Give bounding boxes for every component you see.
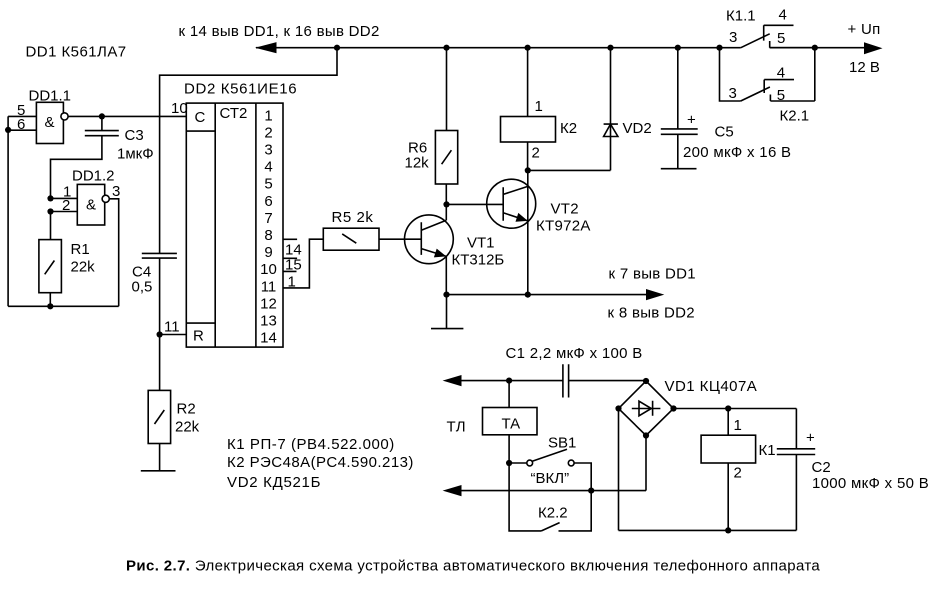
svg-text:13: 13: [260, 313, 277, 330]
svg-text:5: 5: [777, 87, 785, 104]
node phone line upper arrow: [443, 375, 462, 386]
node phone line lower arrow: [443, 485, 462, 496]
op-amp gate DD1.1: [29, 88, 72, 144]
svg-text:&: &: [86, 197, 96, 214]
svg-text:1000 мкФ х 50 В: 1000 мкФ х 50 В: [812, 475, 929, 492]
svg-text:к 14 выв DD1, к 16 выв DD2: к 14 выв DD1, к 16 выв DD2: [179, 23, 380, 40]
node VT1 collector junction: [443, 201, 449, 207]
node R1 bottom junction: [5, 127, 53, 310]
wire VT1 collector junction to VT2 base: [446, 203, 503, 205]
capacitor C3: [51, 116, 154, 198]
capacitor C1: [506, 345, 643, 398]
svg-text:“ВКЛ”: “ВКЛ”: [531, 470, 570, 487]
svg-text:R1: R1: [71, 241, 90, 258]
svg-text:3: 3: [729, 29, 737, 46]
label relay types list: [227, 436, 414, 491]
svg-text:к 8 выв DD2: к 8 выв DD2: [608, 305, 695, 322]
switch contact K1.1: [726, 7, 815, 48]
diode bridge VD1 KC407A: [619, 378, 758, 436]
switch contact K2.1: [720, 48, 815, 125]
svg-text:VD2 КД521Б: VD2 КД521Б: [227, 474, 321, 491]
IC DD2 K561IE16 counter: [184, 81, 297, 348]
svg-text:R5 2k: R5 2k: [332, 209, 374, 226]
node K1 top junction: [725, 405, 731, 411]
svg-text:3: 3: [729, 85, 737, 102]
svg-text:22k: 22k: [71, 259, 96, 276]
svg-text:R2: R2: [177, 401, 196, 418]
svg-text:&: &: [45, 114, 55, 131]
svg-text:22k: 22k: [175, 419, 200, 436]
transistor VT1 KT312B: [405, 215, 505, 269]
wire DD2 pin 11 R input: [160, 319, 187, 336]
node arrow to pin 7 DD1 / pin 8 DD2: [608, 266, 696, 322]
wire pin 2 DD1.2: [51, 197, 78, 214]
svg-text:VD2: VD2: [623, 120, 652, 137]
svg-text:К2.2: К2.2: [538, 505, 568, 522]
wire R5 to VT1 base: [379, 238, 422, 240]
resistor R2 22k: [148, 390, 199, 443]
wire K2 pin 2 to VT2 collector: [528, 142, 540, 170]
svg-text:1: 1: [264, 107, 272, 124]
node arrow to pins 14 DD1 / 16 DD2: [179, 23, 380, 53]
transistor VT2 KT972A: [487, 179, 591, 234]
svg-text:1: 1: [535, 98, 543, 115]
svg-text:VD1 КЦ407А: VD1 КЦ407А: [665, 378, 758, 395]
svg-text:К2 РЭС48А(РС4.590.213): К2 РЭС48А(РС4.590.213): [227, 454, 414, 471]
svg-text:14: 14: [260, 330, 277, 347]
svg-text:ТЛ: ТЛ: [447, 419, 466, 436]
svg-text:к 7 выв DD1: к 7 выв DD1: [609, 266, 696, 283]
svg-text:12 В: 12 В: [849, 59, 880, 76]
node SB1 right junction: [588, 488, 594, 494]
wire DD1.2 output pin 3: [109, 183, 120, 306]
svg-text:DD2 К561ИЕ16: DD2 К561ИЕ16: [184, 81, 297, 98]
node DD1.1 output junction: [99, 113, 105, 119]
svg-text:5: 5: [264, 176, 272, 193]
wire VT1 collector to R6: [445, 184, 447, 220]
node R input junction: [157, 331, 163, 337]
svg-text:К2.1: К2.1: [780, 108, 810, 125]
svg-text:3: 3: [264, 142, 272, 159]
node +Un 12V arrow: [848, 21, 883, 76]
wire pin 1 DD1.2: [51, 184, 78, 201]
capacitor C5: [661, 48, 792, 169]
wire phone line upper: [462, 380, 647, 382]
svg-text:SB1: SB1: [548, 435, 576, 452]
svg-text:12: 12: [260, 295, 277, 312]
svg-text:7: 7: [264, 210, 272, 227]
svg-text:5: 5: [777, 30, 785, 47]
svg-text:К1: К1: [759, 442, 776, 459]
svg-text:11: 11: [261, 278, 277, 295]
svg-text:4: 4: [264, 159, 272, 176]
wire R1 bottom loop: [8, 116, 119, 306]
wire pin 6 DD1.1: [8, 116, 36, 133]
wire rail to DD2/R divider branch: [160, 48, 337, 391]
svg-text:ТА: ТА: [502, 416, 521, 433]
svg-text:C5: C5: [715, 124, 734, 141]
wire DD2 pin 14 stub: [283, 239, 302, 258]
svg-text:12k: 12k: [405, 155, 430, 172]
wire bridge minus rail: [619, 409, 797, 531]
node emitter bus junctions: [443, 292, 531, 298]
wire rail to K2 pin 1: [528, 48, 543, 117]
svg-text:+: +: [687, 112, 696, 129]
switch contact K2.2: [509, 463, 591, 531]
svg-text:3: 3: [112, 183, 120, 200]
wire VT1 emitter down: [445, 256, 447, 294]
svg-text:С1 2,2 мкФ х 100 В: С1 2,2 мкФ х 100 В: [506, 345, 643, 362]
svg-text:К1.1: К1.1: [726, 8, 756, 25]
svg-text:C: C: [195, 109, 206, 126]
svg-text:C2: C2: [812, 459, 831, 476]
svg-text:200 мкФ х 16 В: 200 мкФ х 16 В: [683, 144, 791, 161]
wire top power rail: [256, 47, 815, 49]
resistor R1 22k: [39, 240, 95, 293]
block TA telephone: [483, 381, 538, 463]
wire rail to +Un arrow: [815, 47, 864, 49]
relay coil K2: [501, 117, 578, 143]
switch SB1: [509, 435, 591, 491]
node bridge corner junctions: [615, 378, 676, 439]
label DD2 output numbers 1-14: [260, 107, 277, 346]
svg-text:10: 10: [171, 100, 188, 117]
junction dots on rail: [334, 45, 818, 51]
capacitor C4: [132, 253, 177, 295]
svg-text:К1 РП-7 (РВ4.522.000): К1 РП-7 (РВ4.522.000): [227, 436, 395, 453]
wire VT2 collector up / emitter down: [527, 170, 529, 294]
ground main: [431, 295, 463, 329]
label TL phone line: [447, 419, 466, 436]
svg-text:VT1: VT1: [467, 235, 495, 252]
svg-text:4: 4: [779, 7, 787, 24]
svg-text:СТ2: СТ2: [220, 105, 248, 122]
svg-text:Рис. 2.7. Электрическая схема: Рис. 2.7. Электрическая схема устройства…: [126, 558, 820, 575]
svg-text:+ Uп: + Uп: [848, 21, 881, 38]
op-amp gate DD1.2: [72, 168, 115, 226]
svg-text:1: 1: [288, 274, 296, 291]
wire rail to R6: [446, 48, 448, 131]
svg-text:4: 4: [777, 65, 785, 82]
svg-text:1мкФ: 1мкФ: [117, 146, 154, 163]
svg-text:VT2: VT2: [551, 201, 579, 218]
resistor R6 12k: [405, 131, 458, 185]
svg-text:DD1 К561ЛА7: DD1 К561ЛА7: [26, 44, 127, 61]
svg-text:2: 2: [62, 197, 70, 214]
svg-text:8: 8: [264, 227, 272, 244]
svg-text:10: 10: [260, 261, 277, 278]
node VT2 collector junction: [525, 167, 531, 173]
svg-text:15: 15: [285, 256, 302, 273]
wire DD2 pin 15 stub: [283, 256, 302, 273]
wire phone line lower: [462, 490, 647, 492]
svg-text:КТ972А: КТ972А: [536, 218, 591, 235]
svg-text:2: 2: [734, 465, 742, 482]
resistor R5 2k: [323, 209, 379, 250]
wire DD1.1 output to DD2 pin 10: [68, 100, 188, 117]
svg-text:11: 11: [164, 319, 180, 336]
svg-text:КТ312Б: КТ312Б: [452, 252, 505, 269]
svg-text:1: 1: [734, 417, 742, 434]
wire DD2 pin 1 output to R5: [283, 239, 324, 290]
label caption: [126, 558, 820, 575]
svg-text:6: 6: [17, 116, 25, 133]
wire emitter ground bus: [447, 294, 647, 296]
wire bridge bottom corner to phone lower: [645, 436, 647, 491]
wire pin 5 DD1.1: [8, 102, 36, 119]
svg-text:DD1.1: DD1.1: [29, 88, 72, 105]
svg-text:DD1.2: DD1.2: [72, 168, 115, 185]
node TA top junction: [506, 378, 512, 384]
svg-text:0,5: 0,5: [132, 279, 153, 296]
diode VD2: [528, 48, 652, 171]
svg-text:C3: C3: [125, 127, 144, 144]
wire DD1.2 inputs down to R1: [50, 212, 52, 240]
svg-text:9: 9: [264, 244, 272, 261]
svg-text:2: 2: [532, 145, 540, 162]
label DD1 K561LA7: [26, 44, 127, 61]
capacitor C2: [777, 409, 929, 531]
svg-text:6: 6: [264, 193, 272, 210]
node DD1.2 input junctions: [47, 195, 53, 214]
node TA bottom junction: [506, 460, 512, 466]
svg-text:+: +: [806, 430, 815, 447]
node K1 bottom junction: [725, 527, 731, 533]
svg-text:К2: К2: [560, 120, 577, 137]
wire bridge plus rail: [674, 408, 797, 410]
relay coil K1: [701, 409, 775, 531]
svg-text:R: R: [193, 328, 204, 345]
ground under R2: [141, 444, 176, 471]
svg-text:2: 2: [264, 124, 272, 141]
